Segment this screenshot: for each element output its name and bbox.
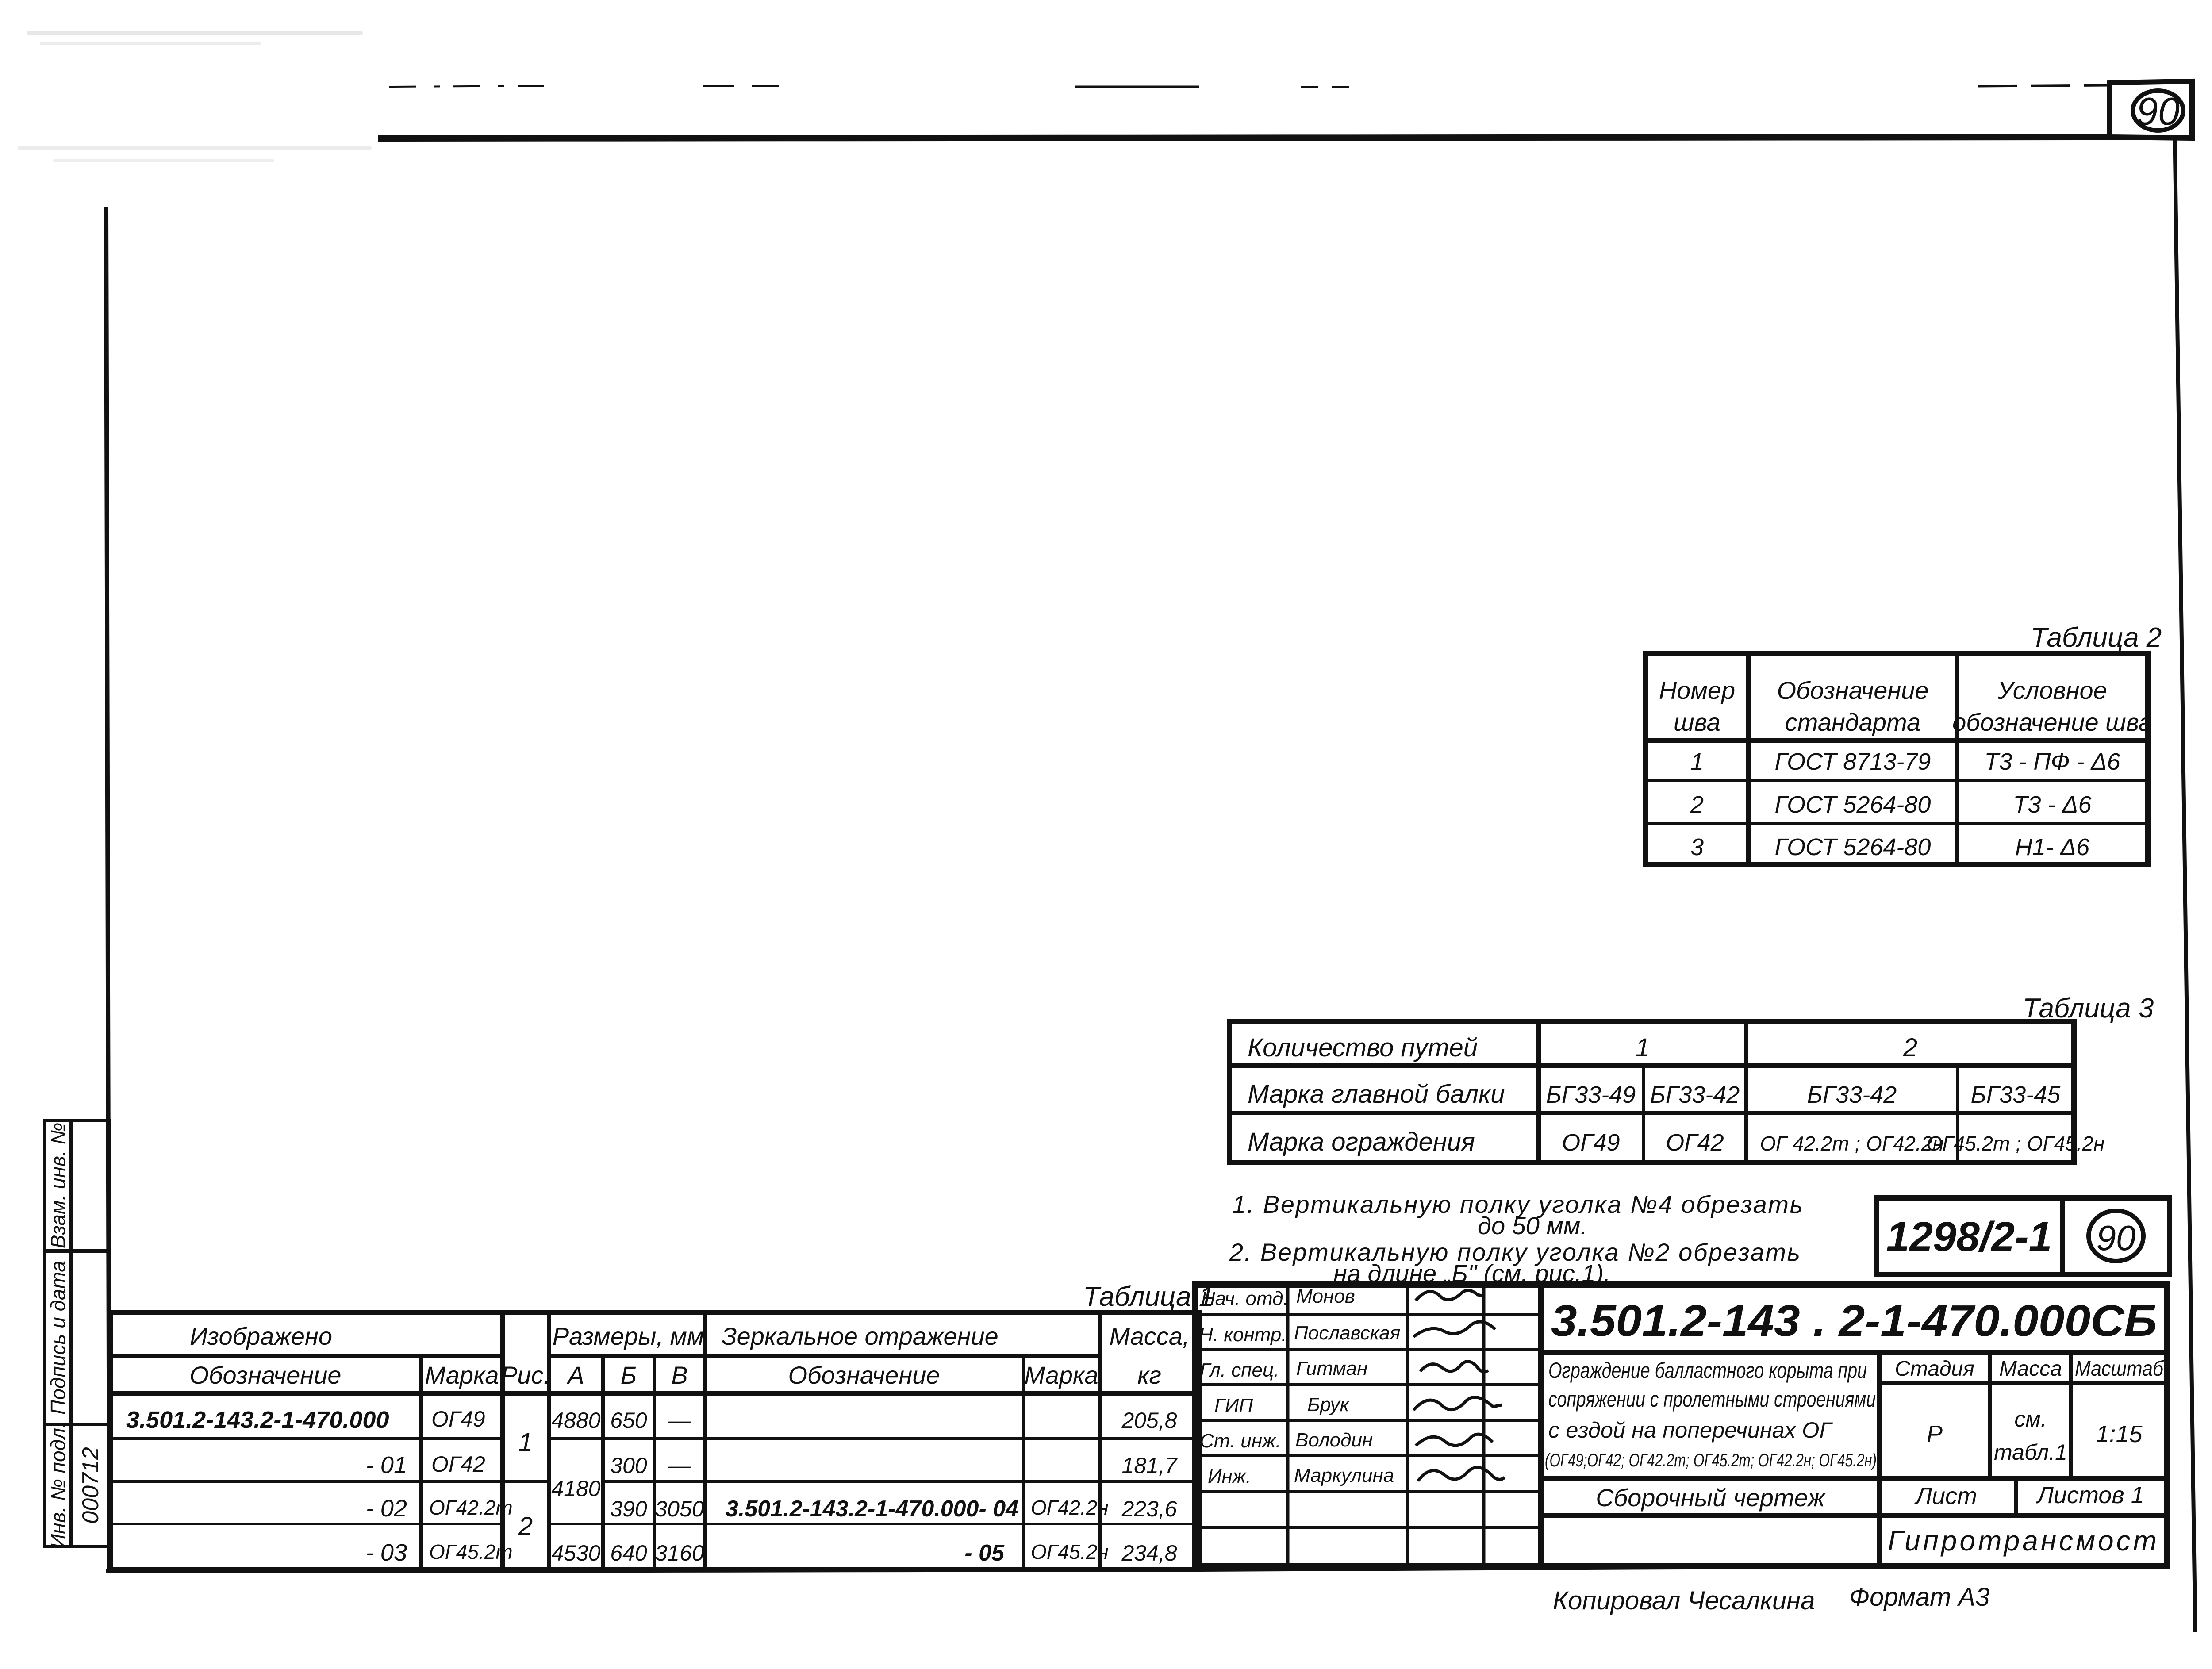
svg-text:Подпись и дата: Подпись и дата: [46, 1261, 69, 1415]
svg-text:4180: 4180: [551, 1476, 600, 1501]
svg-text:БГ33-45: БГ33-45: [1971, 1082, 2061, 1108]
svg-text:Формат А3: Формат А3: [1849, 1583, 1989, 1611]
svg-text:Копировал Чесалкина: Копировал Чесалкина: [1553, 1586, 1815, 1615]
svg-text:Брук: Брук: [1307, 1394, 1350, 1416]
svg-text:Таблица 2: Таблица 2: [2031, 622, 2162, 653]
svg-text:ОГ42: ОГ42: [1666, 1129, 1724, 1156]
svg-text:БГ33-49: БГ33-49: [1546, 1082, 1636, 1108]
svg-text:ГОСТ 5264-80: ГОСТ 5264-80: [1775, 791, 1931, 818]
svg-text:ОГ45.2т: ОГ45.2т: [429, 1540, 513, 1563]
svg-text:А: А: [566, 1361, 584, 1389]
svg-text:стандарта: стандарта: [1785, 708, 1920, 736]
svg-text:Марка главной балки: Марка главной балки: [1248, 1080, 1505, 1109]
svg-text:Т3 - ПФ - Δ6: Т3 - ПФ - Δ6: [1984, 748, 2120, 775]
svg-text:ОГ42.2т: ОГ42.2т: [429, 1496, 513, 1519]
svg-text:Марка ограждения: Марка ограждения: [1248, 1128, 1475, 1156]
svg-text:Рис.: Рис.: [501, 1361, 550, 1389]
svg-text:Масштаб: Масштаб: [2075, 1357, 2164, 1381]
svg-text:ОГ49: ОГ49: [431, 1407, 485, 1431]
svg-text:до 50 мм.: до 50 мм.: [1478, 1212, 1587, 1239]
svg-text:(ОГ49;ОГ42; ОГ42.2т; ОГ45.2т;: (ОГ49;ОГ42; ОГ42.2т; ОГ45.2т; ОГ42.2н; О…: [1545, 1450, 1877, 1470]
svg-text:1: 1: [1690, 748, 1704, 775]
svg-text:3.501.2-143.2-1-470.000- 04: 3.501.2-143.2-1-470.000- 04: [726, 1496, 1018, 1522]
svg-text:кг: кг: [1137, 1361, 1161, 1389]
svg-text:1:15: 1:15: [2096, 1421, 2143, 1447]
svg-text:4530: 4530: [551, 1541, 600, 1565]
svg-text:с ездой на поперечинах ОГ: с ездой на поперечинах ОГ: [1548, 1418, 1833, 1443]
svg-text:640: 640: [610, 1541, 647, 1565]
svg-text:1298/2-1: 1298/2-1: [1886, 1213, 2052, 1260]
svg-text:Лист: Лист: [1914, 1483, 1977, 1509]
svg-text:234,8: 234,8: [1121, 1541, 1177, 1565]
svg-text:Гитман: Гитман: [1296, 1358, 1367, 1379]
svg-text:181,7: 181,7: [1121, 1453, 1178, 1478]
svg-text:90: 90: [2136, 89, 2180, 133]
svg-text:Условное: Условное: [1997, 676, 2107, 704]
svg-text:В: В: [671, 1361, 687, 1389]
svg-text:2: 2: [1690, 791, 1704, 818]
svg-text:ОГ 42.2т ; ОГ42.2н: ОГ 42.2т ; ОГ42.2н: [1760, 1132, 1943, 1155]
svg-text:Н1- Δ6: Н1- Δ6: [2015, 834, 2090, 860]
svg-text:ОГ42: ОГ42: [431, 1452, 485, 1477]
svg-text:Ст. инж.: Ст. инж.: [1200, 1430, 1281, 1452]
svg-text:Стадия: Стадия: [1895, 1357, 1974, 1381]
svg-text:- 05: - 05: [964, 1540, 1005, 1566]
svg-text:Инж.: Инж.: [1208, 1466, 1251, 1487]
svg-text:Ограждение балластного корыта: Ограждение балластного корыта при: [1548, 1358, 1867, 1383]
svg-text:300: 300: [610, 1453, 647, 1478]
svg-text:Володин: Володин: [1295, 1429, 1373, 1451]
svg-text:ГИП: ГИП: [1214, 1395, 1253, 1416]
svg-text:3: 3: [1690, 834, 1704, 860]
svg-text:Нач. отд.: Нач. отд.: [1201, 1288, 1289, 1309]
svg-text:3.501.2-143.2-1-470.000: 3.501.2-143.2-1-470.000: [126, 1407, 389, 1433]
svg-text:БГ33-42: БГ33-42: [1650, 1082, 1740, 1108]
svg-text:650: 650: [610, 1408, 647, 1433]
svg-text:Марка: Марка: [425, 1361, 499, 1389]
svg-text:390: 390: [610, 1496, 647, 1521]
svg-text:205,8: 205,8: [1121, 1408, 1177, 1433]
svg-text:- 02: - 02: [366, 1495, 407, 1522]
svg-text:Размеры, мм: Размеры, мм: [553, 1322, 704, 1350]
svg-text:1: 1: [518, 1428, 533, 1457]
svg-text:- 03: - 03: [366, 1539, 407, 1566]
svg-text:Обозначение: Обозначение: [189, 1361, 341, 1389]
svg-text:3160: 3160: [655, 1541, 704, 1565]
svg-text:Т3 - Δ6: Т3 - Δ6: [2013, 791, 2092, 818]
svg-text:Изображено: Изображено: [190, 1322, 332, 1350]
svg-text:обозначение шва: обозначение шва: [1952, 708, 2152, 736]
svg-text:Масса,: Масса,: [1109, 1322, 1189, 1350]
svg-text:БГ33-42: БГ33-42: [1807, 1082, 1897, 1108]
svg-text:ОГ45.2н: ОГ45.2н: [1031, 1540, 1109, 1563]
svg-text:Зеркальное отражение: Зеркальное отражение: [722, 1322, 998, 1350]
svg-text:ГОСТ 5264-80: ГОСТ 5264-80: [1775, 834, 1931, 860]
svg-text:Обозначение: Обозначение: [788, 1361, 940, 1389]
svg-text:Пославская: Пославская: [1294, 1322, 1400, 1344]
svg-text:Марка: Марка: [1024, 1361, 1098, 1389]
svg-text:Инв. № подл.: Инв. № подл.: [46, 1422, 69, 1548]
svg-text:4880: 4880: [551, 1408, 600, 1433]
svg-text:2: 2: [518, 1512, 533, 1541]
svg-text:Б: Б: [621, 1361, 637, 1389]
svg-text:2: 2: [1903, 1033, 1917, 1062]
svg-text:см.: см.: [2014, 1407, 2047, 1431]
svg-text:табл.1: табл.1: [1994, 1440, 2067, 1465]
svg-text:Номер: Номер: [1659, 676, 1735, 704]
svg-text:Обозначение: Обозначение: [1777, 676, 1928, 704]
svg-text:—: —: [668, 1408, 691, 1433]
svg-text:223,6: 223,6: [1121, 1496, 1177, 1521]
svg-text:3.501.2-143 . 2-1-470.000СБ: 3.501.2-143 . 2-1-470.000СБ: [1551, 1296, 2157, 1346]
svg-text:90: 90: [2097, 1218, 2136, 1258]
svg-text:ОГ49: ОГ49: [1562, 1129, 1620, 1156]
svg-text:сопряжении с пролетными строен: сопряжении с пролетными строениями: [1548, 1387, 1876, 1412]
svg-text:шва: шва: [1674, 708, 1720, 736]
svg-text:Гл. спец.: Гл. спец.: [1200, 1359, 1279, 1381]
svg-text:Масса: Масса: [1999, 1357, 2062, 1381]
svg-text:—: —: [668, 1453, 691, 1478]
svg-text:- 01: - 01: [366, 1452, 407, 1478]
svg-text:ГОСТ 8713-79: ГОСТ 8713-79: [1775, 748, 1931, 775]
svg-text:Сборочный чертеж: Сборочный чертеж: [1596, 1484, 1826, 1512]
svg-text:ОГ45.2т ; ОГ45.2н: ОГ45.2т ; ОГ45.2н: [1927, 1132, 2105, 1155]
svg-text:Гипротрансмост: Гипротрансмост: [1888, 1525, 2159, 1557]
svg-text:Листов 1: Листов 1: [2036, 1482, 2144, 1508]
svg-text:ОГ42.2н: ОГ42.2н: [1031, 1496, 1109, 1519]
svg-text:Количество путей: Количество путей: [1248, 1033, 1478, 1062]
svg-text:Р: Р: [1927, 1421, 1943, 1447]
svg-text:Монов: Монов: [1296, 1285, 1355, 1307]
svg-text:Н. контр.: Н. контр.: [1199, 1324, 1287, 1346]
svg-text:Таблица 1: Таблица 1: [1083, 1281, 1214, 1312]
svg-text:000712: 000712: [78, 1447, 104, 1524]
svg-text:Взам. инв. №: Взам. инв. №: [46, 1123, 69, 1249]
svg-text:Маркулина: Маркулина: [1294, 1465, 1394, 1486]
svg-text:1: 1: [1636, 1033, 1650, 1062]
svg-text:3050: 3050: [655, 1496, 704, 1521]
